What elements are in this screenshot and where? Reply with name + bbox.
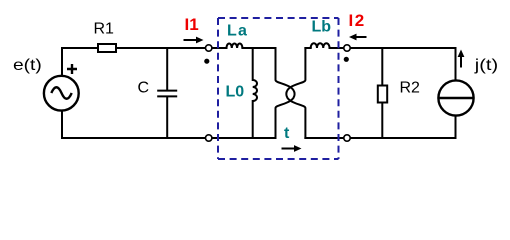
svg-text:R2: R2 — [400, 80, 421, 97]
wire La to crossing top-left (junction with L0 at x=252.7) — [242, 47, 275, 49]
wire ideal transformer crossing right conductor — [286, 48, 305, 138]
inductor Lb — [311, 43, 330, 48]
inductor La — [227, 44, 243, 49]
svg-text:e(t): e(t) — [13, 56, 42, 74]
svg-text:I2: I2 — [349, 11, 366, 30]
inductor L0 — [253, 80, 257, 101]
wire top: left corner to R1 — [62, 47, 97, 49]
polarity dot secondary — [344, 57, 349, 62]
svg-text:La: La — [227, 23, 248, 40]
svg-text:t: t — [284, 125, 290, 142]
resistor R2 — [378, 86, 387, 103]
polarity dot primary — [204, 59, 209, 64]
wire bottom left run — [62, 137, 276, 139]
wire L0 branch lower segment — [252, 101, 254, 138]
svg-text:L0: L0 — [226, 84, 245, 101]
plus polarity mark of e(t) — [67, 64, 77, 74]
arrow t direction — [282, 145, 302, 152]
wire capacitor bottom lead — [166, 97, 168, 138]
svg-text:R1: R1 — [94, 21, 115, 38]
wire j(t) top lead — [455, 48, 457, 80]
resistor R1 — [98, 44, 116, 52]
wire ideal transformer crossing left conductor — [276, 48, 295, 138]
wire R2 branch upper segment — [381, 48, 383, 85]
arrow I2 current direction — [349, 34, 367, 41]
wire capacitor top lead — [166, 48, 168, 90]
wire left vertical top lead of e(t) — [61, 48, 63, 75]
terminal primary bottom — [206, 135, 212, 141]
wire L0 branch upper segment — [252, 48, 254, 80]
wire bottom right run — [305, 137, 455, 139]
wire primary terminal to La — [212, 47, 227, 49]
wire R2 branch lower segment — [381, 103, 383, 138]
wire Lb to secondary terminal — [330, 47, 345, 49]
wire left vertical bottom lead of e(t) — [61, 112, 63, 139]
arrow j(t) current direction — [458, 50, 465, 68]
svg-text:C: C — [138, 80, 150, 97]
terminal secondary top — [344, 45, 350, 51]
svg-text:I1: I1 — [185, 15, 199, 34]
terminal primary top — [206, 45, 212, 51]
arrow I1 current direction — [184, 37, 204, 44]
svg-text:j(t): j(t) — [474, 56, 498, 74]
wire j(t) bottom lead — [455, 117, 457, 139]
wire R1 to primary terminal (junction with C at x=167) — [117, 47, 206, 49]
wire secondary terminal to top-right corner (junctions R2, j) — [350, 47, 456, 49]
voltage source e(t) — [44, 76, 79, 111]
wire crossing top-right to Lb — [305, 47, 310, 49]
transformer boundary dashed box — [218, 18, 339, 159]
terminal secondary bottom — [344, 135, 350, 141]
current source j(t) — [438, 80, 473, 115]
capacitor C — [157, 91, 177, 97]
svg-text:Lb: Lb — [312, 19, 332, 36]
